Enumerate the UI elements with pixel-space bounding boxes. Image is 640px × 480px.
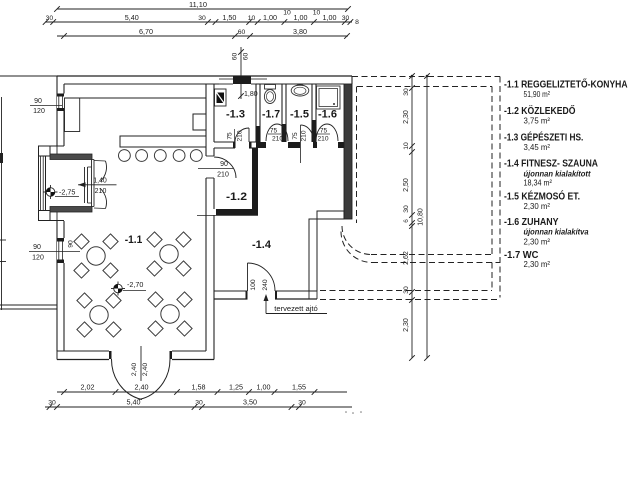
svg-text:2,40: 2,40 xyxy=(142,363,149,376)
section line left of building xyxy=(0,75,57,77)
svg-text:30: 30 xyxy=(198,15,206,22)
svg-text:10: 10 xyxy=(313,10,321,17)
dimension row A overall 11,10 xyxy=(54,0,351,12)
svg-text:2,40: 2,40 xyxy=(135,383,149,392)
svg-text:10: 10 xyxy=(283,10,291,17)
svg-text:60: 60 xyxy=(232,53,239,61)
svg-text:90: 90 xyxy=(68,240,75,248)
legend room list xyxy=(504,77,628,268)
svg-text:6,70: 6,70 xyxy=(139,27,153,36)
svg-text:210: 210 xyxy=(217,172,229,179)
wall between room -1.1 and rooms -1.3/-1.2 xyxy=(206,84,214,360)
dining table with 4 chairs xyxy=(74,234,118,278)
bottom dimension row 2,02/2,40/1,58/1,25/1,00/1,55 xyxy=(57,383,347,395)
dimension row B 30/5,40/30/1,50/10/1,00/10/1,00/10/1,00/30/8 xyxy=(43,10,359,27)
svg-text:5,40: 5,40 xyxy=(127,398,141,407)
bay window swing arcs xyxy=(94,161,107,209)
svg-text:2,62: 2,62 xyxy=(403,251,410,265)
svg-text:18,34 m²: 18,34 m² xyxy=(524,177,553,187)
svg-text:-1.4 FITNESZ- SZAUNA: -1.4 FITNESZ- SZAUNA xyxy=(504,159,599,170)
left edge cut line xyxy=(1,97,3,310)
dashed rounded corner arcs xyxy=(341,226,372,263)
svg-text:90: 90 xyxy=(220,161,228,168)
cut wall mark at left edge xyxy=(0,153,3,163)
svg-text:1,00: 1,00 xyxy=(263,13,277,22)
kitchen duct block xyxy=(193,98,206,130)
svg-text:2,50: 2,50 xyxy=(403,178,410,192)
right wall of room -1.4 xyxy=(309,219,317,291)
double entrance door of room -1.1 xyxy=(111,346,170,400)
svg-text:10,80: 10,80 xyxy=(418,208,425,226)
svg-text:60: 60 xyxy=(243,53,250,61)
door -1.1 to -1.2 with arc 90/210 xyxy=(198,157,236,179)
svg-text:75: 75 xyxy=(320,128,328,135)
dining table with 4 chairs xyxy=(77,293,121,337)
svg-text:tervezett ajtó: tervezett ajtó xyxy=(274,304,317,313)
scan artifact dots xyxy=(345,411,347,413)
dining table with 4 chairs xyxy=(147,232,191,276)
level marker -2,70 xyxy=(111,280,143,296)
wall right of room -1.2 (dark) xyxy=(252,148,258,209)
top exterior wall of building xyxy=(57,76,352,84)
dining table with 4 chairs xyxy=(148,292,192,336)
svg-text:10: 10 xyxy=(403,142,410,150)
svg-text:210: 210 xyxy=(272,136,283,143)
svg-text:-1.3: -1.3 xyxy=(226,109,245,121)
bar counter xyxy=(120,136,206,147)
svg-text:2,30 m²: 2,30 m² xyxy=(524,236,551,246)
svg-text:1,00: 1,00 xyxy=(323,13,337,22)
dashed terrace outline outer xyxy=(320,77,500,300)
svg-text:210: 210 xyxy=(301,130,308,141)
svg-text:3,80: 3,80 xyxy=(293,27,307,36)
kitchen counter along top of -1.1 xyxy=(65,98,207,132)
svg-text:90: 90 xyxy=(33,244,41,251)
fraction 90/120 lower window xyxy=(29,240,80,261)
washbasin in room -1.5 xyxy=(291,85,309,96)
svg-text:75: 75 xyxy=(227,132,234,140)
svg-text:1,58: 1,58 xyxy=(192,383,206,392)
svg-text:11,10: 11,10 xyxy=(189,0,207,9)
svg-text:-1.4: -1.4 xyxy=(252,239,272,251)
svg-text:30: 30 xyxy=(48,400,56,407)
svg-text:2,30 m²: 2,30 m² xyxy=(524,259,551,269)
step wall below -1.6 xyxy=(317,211,344,219)
window in left wall upper 90/120 xyxy=(57,94,64,112)
masonry pier in top wall xyxy=(233,76,251,84)
shower tray in room -1.6 xyxy=(317,86,341,109)
svg-text:2,40: 2,40 xyxy=(131,363,138,376)
right exterior wall of rooms block xyxy=(344,76,352,219)
svg-text:75: 75 xyxy=(292,132,299,140)
svg-text:újonnan kialakítva: újonnan kialakítva xyxy=(524,228,589,237)
bottom wall of rooms block xyxy=(214,142,346,148)
svg-text:1,55: 1,55 xyxy=(292,383,306,392)
svg-text:210: 210 xyxy=(317,136,328,143)
svg-text:3,75 m²: 3,75 m² xyxy=(524,116,551,126)
door of -1.5 rotated 75/210 xyxy=(292,125,314,163)
svg-text:-1.7: -1.7 xyxy=(262,109,280,121)
svg-text:30: 30 xyxy=(195,400,203,407)
boiler in room -1.3 xyxy=(215,89,227,106)
svg-text:2,30 m²: 2,30 m² xyxy=(524,201,551,211)
partition walls of rooms -1.3 -1.7 -1.5 -1.6 xyxy=(256,84,316,142)
svg-text:30: 30 xyxy=(403,88,410,96)
svg-text:-1.1: -1.1 xyxy=(125,234,143,246)
fraction 1,40/210 bay opening xyxy=(78,178,117,195)
vertical overall dimension 10,80 xyxy=(411,73,430,361)
svg-text:2,30: 2,30 xyxy=(403,110,410,124)
window in left wall lower 90/120 xyxy=(57,238,64,263)
svg-text:210: 210 xyxy=(237,130,244,141)
svg-text:240: 240 xyxy=(262,279,269,291)
svg-text:30: 30 xyxy=(403,205,410,213)
svg-text:-1.2: -1.2 xyxy=(226,191,247,203)
bottom dimension row 30/5,40/30/3,50/30 xyxy=(45,398,352,410)
svg-text:8: 8 xyxy=(355,19,359,26)
svg-text:-1.5: -1.5 xyxy=(290,109,309,121)
svg-text:1,25: 1,25 xyxy=(229,383,243,392)
svg-text:30: 30 xyxy=(342,15,350,22)
svg-text:3,50: 3,50 xyxy=(243,398,257,407)
planned door of room -1.4 with swing arc xyxy=(248,263,276,291)
svg-text:2,02: 2,02 xyxy=(81,383,95,392)
svg-text:30: 30 xyxy=(46,15,54,22)
svg-text:60: 60 xyxy=(238,29,246,36)
recessed window wall of bay 140/210 xyxy=(85,160,95,207)
svg-text:75: 75 xyxy=(270,128,278,135)
svg-text:5,40: 5,40 xyxy=(125,13,139,22)
svg-text:30: 30 xyxy=(298,400,306,407)
svg-text:120: 120 xyxy=(33,108,45,115)
svg-text:100: 100 xyxy=(250,279,257,291)
wall below room -1.2 (dark) xyxy=(216,209,258,215)
left exterior wall of room -1.1 xyxy=(57,76,64,351)
svg-text:3,45 m²: 3,45 m² xyxy=(524,142,551,152)
svg-text:2,30: 2,30 xyxy=(403,318,410,332)
bar stools xyxy=(119,150,203,162)
svg-text:51,90 m²: 51,90 m² xyxy=(524,89,551,99)
svg-text:1,40: 1,40 xyxy=(93,178,107,185)
svg-text:6: 6 xyxy=(403,219,410,223)
bottom exterior wall of room -1.1 xyxy=(57,351,214,360)
toilet in room -1.7 xyxy=(264,85,275,104)
svg-text:-1.6: -1.6 xyxy=(318,109,337,121)
door of -1.6 arc 75/210 xyxy=(316,124,338,143)
svg-text:1,00: 1,00 xyxy=(257,383,271,392)
level marker -2,75 xyxy=(44,185,76,199)
retaining wall lines lower left xyxy=(0,304,57,306)
svg-text:90: 90 xyxy=(34,98,42,105)
dimension row C 6,70/60/3,80 xyxy=(57,27,350,39)
door of -1.7 arc 75/210 xyxy=(266,124,288,143)
svg-text:30: 30 xyxy=(403,286,410,294)
door of -1.3 with arc 75/210 rotated xyxy=(227,128,250,143)
svg-text:120: 120 xyxy=(32,255,44,262)
svg-text:-2,75: -2,75 xyxy=(59,188,75,197)
svg-text:210: 210 xyxy=(95,188,107,195)
fraction 90/120 upper window xyxy=(30,98,62,115)
svg-text:10: 10 xyxy=(248,15,256,22)
svg-text:1,00: 1,00 xyxy=(294,13,308,22)
bay window alcove on left xyxy=(39,146,93,221)
svg-text:1,50: 1,50 xyxy=(222,13,236,22)
label tervezett ajto with leader arrow xyxy=(264,294,328,314)
vertical dimension chain 30/2,30/10/2,50/30/6/2,62/30/2,30 xyxy=(403,73,415,361)
svg-text:-2,70: -2,70 xyxy=(127,280,143,289)
dashed terrace outline inner xyxy=(320,87,500,291)
svg-text:-1.6 ZUHANY: -1.6 ZUHANY xyxy=(504,217,559,228)
vertical dimension 60/60 at top wall pier xyxy=(232,47,250,99)
bottom wall of room -1.4 xyxy=(214,291,317,299)
